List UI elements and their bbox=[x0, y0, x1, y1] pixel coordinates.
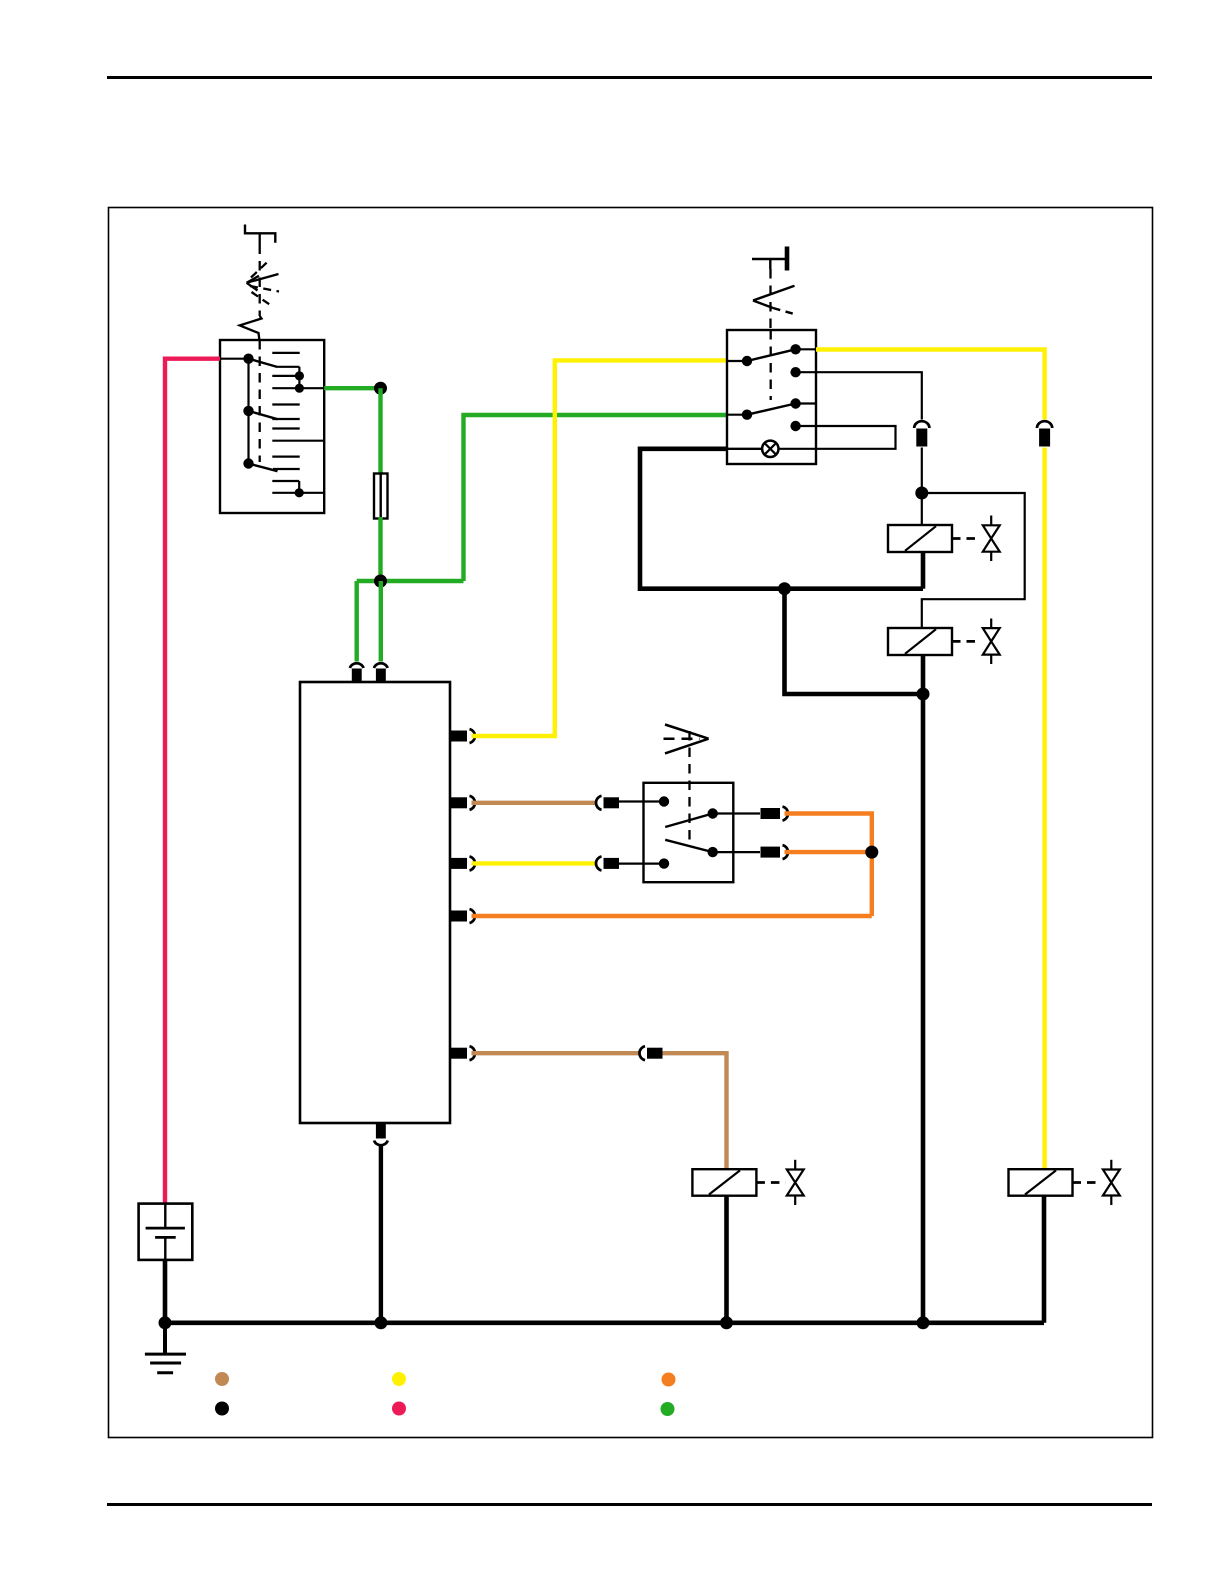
connector: seat switch lower left bbox=[596, 856, 619, 870]
solenoid coil Y1 bbox=[888, 525, 952, 552]
connector: module pin 2 (brown) bbox=[451, 796, 476, 810]
node: green junction at fuse top bbox=[374, 382, 387, 395]
key switch common bus wire bbox=[220, 359, 249, 464]
PTO switch internal mechanical dashed line bbox=[770, 330, 772, 400]
wire: black battery negative to ground bbox=[163, 1260, 168, 1323]
key switch detent zigzag bbox=[240, 316, 262, 340]
legend dot: yellow bbox=[392, 1372, 406, 1386]
connector: seat switch upper left bbox=[596, 796, 619, 810]
PTO knob symbol bbox=[752, 247, 787, 271]
solenoid coil Y2 bbox=[888, 628, 952, 655]
dashed link Y3 to valve bbox=[756, 1181, 785, 1184]
wire: black PTO switch to solenoid bus bbox=[640, 449, 923, 589]
wire: yellow module pin3 to seat switch connector bbox=[472, 861, 596, 865]
wire: yellow module pin1 to PTO switch bbox=[472, 360, 728, 736]
wire: black return drop bbox=[785, 589, 924, 694]
key switch stationary contacts pole 2 bbox=[272, 405, 324, 441]
seat switch lead-ins bbox=[619, 802, 760, 864]
wire: orange seat switch lower bbox=[785, 850, 872, 854]
battery BT1 bbox=[139, 1204, 193, 1260]
connector: inline connector on yellow riser bbox=[1037, 421, 1052, 446]
seat switch blades bbox=[665, 814, 713, 853]
wire: green fuse to lower junction bbox=[378, 517, 382, 581]
node: ground junction module bbox=[374, 1316, 387, 1329]
key switch stationary contacts pole 3 bbox=[272, 457, 324, 493]
node: black ground-run junction bbox=[917, 688, 930, 701]
key switch pole3 junction dot bbox=[295, 488, 304, 497]
connector: module top pin B bbox=[374, 663, 388, 681]
node: ground junction Y3 bbox=[720, 1316, 733, 1329]
wire: brown module pin5 to inline connector bbox=[472, 1051, 639, 1055]
wire: PTO lamp loop bbox=[779, 426, 896, 449]
key switch rotary position fan bbox=[247, 260, 279, 306]
connector: inline connector on black coil wire bbox=[914, 421, 929, 446]
key switch movable blades bbox=[249, 359, 278, 472]
wire: pink battery-to-keyswitch feed bbox=[165, 359, 220, 1203]
PTO switch S2 box bbox=[727, 330, 816, 464]
wire: black Y3 output to ground bus bbox=[724, 1196, 729, 1323]
wire: orange module pin4 to seat switch loop bbox=[472, 914, 872, 918]
wire: green down to fuse bbox=[378, 388, 382, 475]
wire: black Y4 output to ground bus bbox=[1042, 1196, 1047, 1323]
key switch pole contacts (dots) bbox=[243, 354, 253, 469]
dashed link Y2 to valve bbox=[952, 640, 981, 643]
ground symbol bbox=[145, 1323, 186, 1373]
node: green junction above module bbox=[374, 575, 387, 588]
connector: module bottom ground pin bbox=[374, 1123, 388, 1145]
PTO pull actuator symbol bbox=[753, 286, 796, 315]
key switch mechanical linkage (dashed) bbox=[259, 233, 261, 316]
hydraulic valve V1 bbox=[983, 516, 1000, 562]
seat switch mechanical linkage (dashed) bbox=[688, 731, 690, 846]
wire: yellow PTO switch output to right riser bbox=[816, 350, 1045, 420]
PTO switch pole2 blade bbox=[747, 404, 796, 415]
PTO switch contact dots bbox=[742, 344, 801, 431]
legend dot: black bbox=[215, 1402, 229, 1416]
wire: brown module pin2 to seat switch connector bbox=[472, 801, 596, 805]
node: coil feed junction bbox=[915, 487, 928, 500]
wire: black Y1 output bbox=[921, 552, 926, 589]
top rule bbox=[107, 76, 1152, 79]
wire: black bypass to solenoid Y2 bbox=[922, 493, 1025, 628]
PTO switch mechanical linkage (dashed) bbox=[769, 269, 771, 330]
solenoid coil Y4 (lift) bbox=[1009, 1169, 1073, 1196]
wire: yellow riser to lift solenoid bbox=[1042, 448, 1046, 1170]
seat switch contact dots bbox=[659, 796, 718, 869]
key switch S1 box bbox=[220, 340, 324, 513]
key switch stationary contacts pole 1 bbox=[272, 353, 324, 388]
wire: black junction into solenoid Y1 bbox=[921, 493, 923, 525]
connector: module top pin A bbox=[350, 663, 364, 681]
wire: black run to ground bus bbox=[921, 694, 926, 1323]
node: ground junction battery bbox=[159, 1316, 172, 1329]
dashed link Y1 to valve bbox=[952, 537, 981, 540]
connector: inline connector on brown solenoid wire bbox=[639, 1046, 662, 1060]
legend dot: orange bbox=[662, 1373, 676, 1387]
connector: module pin 3 (yellow) bbox=[451, 856, 476, 870]
PTO switch pole1 lead-ins bbox=[727, 349, 816, 361]
wire: green module input 1 bbox=[355, 581, 359, 662]
key switch internal mechanical dashed line bbox=[259, 340, 261, 462]
PTO switch pole2 lead-ins bbox=[727, 404, 816, 415]
wire: ground bus bbox=[165, 1321, 1044, 1326]
diagram border frame bbox=[109, 208, 1153, 1438]
wire: green keyswitch output bbox=[324, 386, 380, 390]
solenoid coil Y3 (transmission) bbox=[692, 1169, 756, 1196]
wire: green horizontal distribution bbox=[357, 579, 464, 583]
wire: black PTO switch NO contact to relay coils bbox=[796, 372, 922, 419]
key symbol (key switch actuator) bbox=[245, 225, 275, 243]
wire: thin lamp lead inside PTO switch bbox=[727, 448, 762, 450]
bottom rule bbox=[107, 1503, 1152, 1506]
dashed link Y4 to valve bbox=[1073, 1181, 1102, 1184]
node: orange junction bbox=[865, 846, 878, 859]
wire: black connector to coil junction bbox=[921, 448, 923, 494]
seat actuator symbol bbox=[664, 725, 709, 754]
legend dot: brown bbox=[215, 1372, 229, 1386]
connector: seat switch upper right bbox=[761, 807, 789, 821]
wire: black Y2 output bbox=[921, 655, 926, 694]
fuse F1 bbox=[374, 474, 388, 519]
wire: green riser to PTO switch bbox=[464, 415, 728, 581]
hydraulic valve V2 bbox=[983, 619, 1000, 665]
indicator lamp L1 bbox=[762, 441, 778, 457]
connector: module pin 5 (brown) bbox=[451, 1046, 476, 1060]
hydraulic valve V3 bbox=[787, 1160, 804, 1205]
legend dot: green bbox=[661, 1402, 675, 1416]
PTO switch pole1 blade bbox=[747, 349, 796, 361]
wire: module ground wire to ground bus bbox=[379, 1145, 383, 1323]
key switch pole1 junction dots bbox=[295, 371, 304, 393]
connector: seat switch lower right bbox=[761, 845, 789, 859]
node: black return junction bbox=[778, 582, 791, 595]
connector: module pin 4 (orange) bbox=[451, 909, 476, 923]
wire: brown connector to transmission solenoid bbox=[663, 1053, 727, 1169]
legend dot: pink bbox=[392, 1402, 406, 1416]
seat switch S3 box bbox=[644, 783, 734, 882]
control module U1 bbox=[300, 682, 450, 1123]
wire: green module input 2 bbox=[379, 581, 383, 662]
wire: orange seat switch loop bbox=[785, 814, 872, 917]
connector: module pin 1 (yellow) bbox=[451, 729, 476, 743]
hydraulic valve V4 bbox=[1103, 1160, 1120, 1205]
node: ground junction coil return bbox=[917, 1316, 930, 1329]
